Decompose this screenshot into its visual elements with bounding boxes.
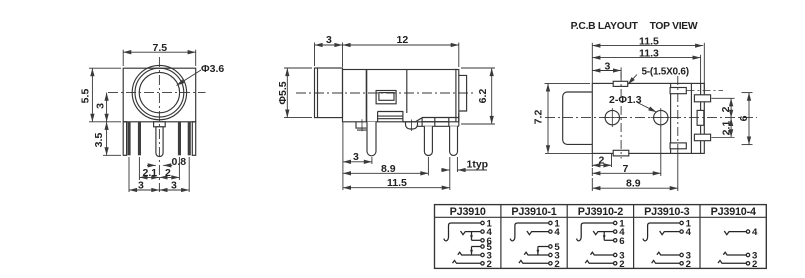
svg-text:PJ3910-2: PJ3910-2 [578, 206, 623, 218]
table column line 3 [633, 205, 635, 269]
cell4 ring contact pin3 [657, 252, 680, 255]
svg-text:PJ3910-1: PJ3910-1 [511, 206, 556, 218]
side barrel [315, 68, 343, 118]
cell2 arrow 5-3 [537, 250, 540, 254]
front vertical centerline [158, 57, 160, 192]
dim 3 top [315, 43, 343, 68]
svg-text:6: 6 [738, 115, 750, 121]
cell2 pin4 wire [532, 231, 549, 233]
tab E bottom [670, 143, 686, 149]
slotD centerline [712, 136, 735, 138]
cell4 pin4 wire [664, 231, 680, 233]
pcb inner vertical 1 [670, 83, 672, 153]
pcb vertical centerline tabs [677, 76, 679, 153]
cell5 terminal labels [752, 227, 758, 270]
cell1 arrow 4-6 [470, 235, 473, 239]
svg-text:6.2: 6.2 [477, 89, 489, 104]
front pin dark 1 [128, 122, 131, 156]
svg-text:P.C.B LAYOUT: P.C.B LAYOUT [571, 21, 639, 32]
svg-text:8.9: 8.9 [626, 178, 641, 190]
svg-text:Φ3.6: Φ3.6 [201, 63, 224, 75]
cell4 pin1 wire with sleeve hook [643, 223, 680, 241]
center pin collar [154, 122, 166, 127]
peg1 tick [361, 119, 363, 131]
pcb hole 1 [605, 110, 619, 124]
front pin dark 2 [138, 122, 141, 156]
front pin dark 3 [178, 122, 181, 156]
dim 3.5 [103, 122, 121, 156]
svg-text:3: 3 [353, 151, 359, 163]
svg-text:2: 2 [752, 259, 757, 270]
side bottom extensions [343, 123, 458, 191]
svg-text:3: 3 [326, 34, 332, 46]
peg2 tick [411, 120, 413, 132]
svg-text:0.8: 0.8 [172, 156, 187, 168]
cell5 pin4 wire [729, 231, 746, 233]
cell4 tip contact V [660, 231, 665, 235]
svg-text:TOP VIEW: TOP VIEW [650, 21, 698, 32]
dim 8.9 [343, 172, 429, 174]
dim phi5.5 [284, 68, 312, 118]
tab A top [670, 88, 686, 94]
jack opening inner circle (hole 3.6) [139, 72, 179, 112]
pcb horizontal centerline [545, 117, 757, 119]
window inner [379, 93, 394, 101]
dim 2 pcb bottom [592, 153, 611, 167]
svg-text:8.9: 8.9 [381, 163, 396, 175]
cell2 pin1 wire with sleeve hook [510, 223, 549, 241]
cell1 connector 5-3 [471, 247, 473, 256]
barrel rim line [317, 68, 319, 118]
dim 2.1 right [730, 118, 732, 137]
cell2 pin5 wire [538, 246, 549, 248]
pcb inner vertical 3 [700, 83, 702, 153]
dim 1typ [441, 169, 487, 171]
svg-text:5-(1.5X0.6): 5-(1.5X0.6) [642, 66, 689, 77]
table header separator [435, 216, 767, 218]
dim 8.9 pcb [592, 153, 678, 191]
cell1 pin1 wire with sleeve hook [444, 223, 481, 241]
hole2 crosshair [651, 108, 672, 127]
cell3 terminal circles [614, 221, 617, 265]
cell3 arrow 4-6 [603, 235, 606, 239]
center pin shaft [156, 127, 163, 157]
svg-text:2.1: 2.1 [720, 121, 732, 136]
svg-text:2: 2 [554, 259, 559, 270]
bottom edge left extension [545, 152, 592, 154]
side centerline [296, 92, 476, 94]
foot peg 1 [356, 122, 366, 130]
jack opening middle circle [135, 68, 184, 117]
side pin 1 [367, 122, 376, 156]
slot D right bottom [694, 134, 710, 141]
dim 3 bottom [343, 161, 372, 163]
cell4 terminal labels [686, 219, 692, 270]
foot peg 2 [406, 122, 418, 129]
dim 2 right [730, 98, 732, 118]
cell1 arrow 5-3 [470, 250, 473, 254]
table column line 4 [699, 205, 701, 269]
window outer [376, 91, 396, 104]
front horizontal centerline [108, 92, 206, 94]
cell4 spring contact pin2 [652, 260, 680, 263]
svg-text:Φ5.5: Φ5.5 [277, 81, 289, 104]
cell1 terminal circles [481, 221, 484, 265]
svg-text:6: 6 [619, 236, 624, 247]
cell3 pin6 wire [604, 239, 613, 241]
label 2-phi1.3 [637, 103, 656, 113]
svg-text:3.5: 3.5 [93, 133, 105, 148]
svg-text:2: 2 [599, 155, 605, 167]
lower rear outline [417, 113, 459, 126]
cell3 pin1 wire with sleeve hook [577, 223, 614, 241]
pcb hole 2 [654, 110, 668, 124]
dim 3 left [106, 93, 108, 122]
contact strip box [378, 112, 403, 122]
cell3 pin4 wire [598, 231, 614, 233]
body mold line thick [366, 70, 368, 122]
dim 7.5 [123, 50, 196, 66]
front pin dark 4 [188, 122, 191, 156]
slotB centerline [712, 97, 735, 99]
shield bottom ramp [403, 118, 459, 122]
svg-text:2-Φ1.3: 2-Φ1.3 [609, 94, 642, 106]
svg-text:3: 3 [138, 180, 144, 192]
svg-text:7: 7 [623, 163, 629, 175]
cell3 terminal labels [619, 219, 625, 270]
cell2 ring contact pin3 [524, 252, 549, 255]
svg-text:3: 3 [95, 103, 107, 109]
pcb main outline [592, 83, 704, 153]
table outer border [435, 205, 767, 269]
side pin 3 [450, 126, 458, 155]
cell2 connector 5-3 [537, 247, 539, 256]
svg-text:2: 2 [487, 259, 492, 270]
pcb vertical centerline slot1 [620, 72, 622, 159]
cell1 spring contact pin2 [453, 260, 481, 263]
svg-text:4: 4 [686, 227, 692, 238]
cell5 tip contact V [724, 231, 729, 235]
side body [343, 70, 459, 122]
svg-text:7.2: 7.2 [533, 110, 545, 125]
dim 2.1 / 2 [139, 176, 179, 178]
svg-text:2: 2 [720, 106, 732, 112]
dim 6.2 [461, 68, 495, 124]
cell2 terminal circles [549, 221, 552, 265]
svg-text:3: 3 [605, 60, 611, 72]
svg-text:4: 4 [752, 227, 758, 238]
slot bottom-left [613, 150, 629, 156]
svg-text:2: 2 [165, 167, 171, 179]
slot B right top [694, 95, 710, 102]
rear protrusion [459, 75, 467, 111]
svg-text:11.5: 11.5 [387, 177, 407, 189]
cell5 terminal circles [746, 230, 749, 265]
dim 7 pcb [592, 126, 661, 176]
svg-text:1typ: 1typ [467, 159, 489, 171]
cell1 pin4 wire [465, 231, 481, 233]
cell5 ring contact pin3 [723, 252, 746, 255]
cell1 ring contact pin3 [458, 252, 481, 255]
cell2 tip contact V [527, 231, 532, 235]
pcb inner vertical 2 [690, 83, 692, 153]
label diameter 3.6 with leader [177, 70, 202, 86]
front body [123, 68, 196, 122]
cell5 spring contact pin2 [718, 260, 746, 263]
jack opening outer circle [132, 65, 186, 119]
cell1 pin6 wire [472, 239, 481, 241]
pcb barrel footprint [563, 92, 592, 144]
dim 6 right [742, 93, 753, 145]
dim 7.2 [545, 83, 591, 153]
cell3 ring contact pin3 [591, 252, 614, 255]
dim 11.3 pcb [592, 55, 700, 84]
dim 11.5 [343, 187, 450, 189]
cell2 spring contact pin2 [519, 260, 549, 263]
slot top-left [613, 81, 628, 86]
tabA centerline [687, 89, 724, 91]
label 5-(1.5X0.6) [628, 75, 637, 85]
front pin white left [123, 122, 126, 156]
body inner vertical right [455, 69, 457, 122]
svg-text:12: 12 [397, 34, 409, 46]
svg-text:PJ3910-3: PJ3910-3 [644, 206, 689, 218]
svg-text:11.3: 11.3 [639, 47, 659, 59]
body shield vertical [406, 70, 408, 114]
hole1 crosshair [602, 108, 623, 127]
side pin 2 [424, 126, 432, 155]
svg-text:PJ3910: PJ3910 [450, 206, 486, 218]
svg-text:5.5: 5.5 [79, 89, 91, 104]
cell4 terminal circles [680, 221, 683, 265]
cell1 pin5 wire [472, 246, 481, 248]
cell3 spring contact pin2 [585, 260, 613, 263]
svg-text:PJ3910-4: PJ3910-4 [711, 206, 756, 218]
cell3 connector 4-6 [603, 232, 605, 241]
dim 3 pcb [592, 67, 621, 78]
svg-text:4: 4 [554, 227, 560, 238]
front pin white right [192, 122, 195, 156]
dim 0.8 [147, 164, 172, 166]
cell1 connector 4-6 [471, 232, 473, 241]
dim 3 / 3 bottom [129, 189, 189, 191]
cell1 tip contact V [461, 231, 466, 235]
dim 5.5 [89, 68, 121, 122]
svg-text:2: 2 [619, 259, 624, 270]
table column line 1 [500, 205, 502, 269]
slot C middle vertical [697, 110, 704, 125]
cell3 tip contact V [593, 231, 598, 235]
dim 11.5 pcb [592, 43, 704, 93]
svg-text:11.5: 11.5 [639, 35, 659, 47]
cell2 terminal labels [554, 219, 560, 270]
svg-text:2.1: 2.1 [143, 167, 158, 179]
svg-text:3: 3 [171, 180, 177, 192]
svg-text:2: 2 [686, 259, 691, 270]
table column line 2 [566, 205, 568, 269]
dim 12 top [343, 43, 459, 68]
svg-text:7.5: 7.5 [153, 42, 168, 54]
front bottom extension lines [129, 157, 189, 192]
cell1 terminal labels [487, 219, 493, 270]
